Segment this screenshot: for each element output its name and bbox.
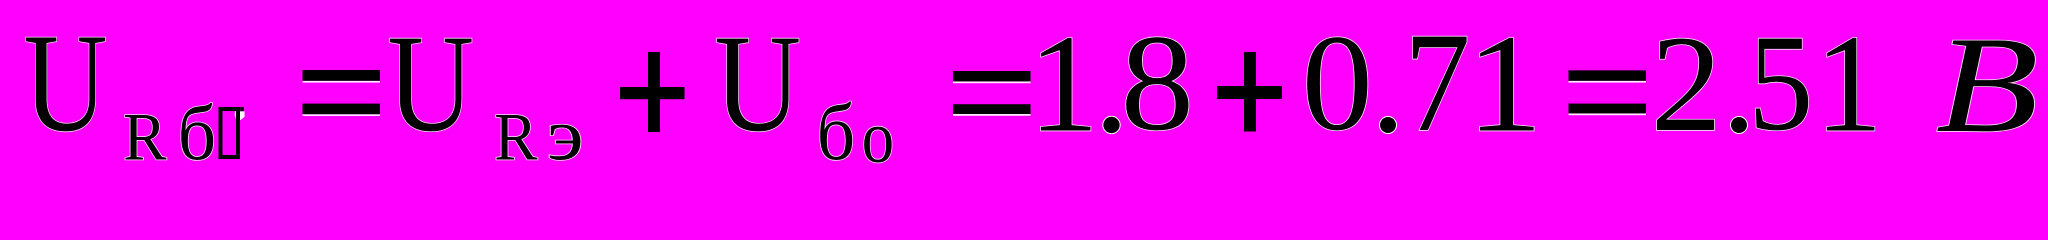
white wedge artifact	[235, 111, 245, 120]
plus 2	[1244, 52, 1256, 132]
svg-text:0: 0	[1302, 6, 1373, 159]
svg-text:U: U	[23, 4, 107, 161]
missing-glyph box	[221, 109, 239, 157]
svg-text:1: 1	[1815, 7, 1883, 162]
svg-text:R: R	[123, 99, 167, 175]
svg-text:U: U	[714, 7, 801, 161]
svg-text:R: R	[494, 99, 538, 175]
svg-text:э: э	[547, 95, 584, 176]
svg-text:о: о	[862, 96, 895, 178]
svg-text:В: В	[1936, 8, 2039, 161]
svg-text:7: 7	[1404, 3, 1470, 161]
plus 1	[648, 52, 660, 132]
equals 1	[303, 81, 381, 83]
svg-text:1: 1	[1466, 7, 1542, 162]
svg-text:б: б	[178, 90, 217, 176]
svg-text:2: 2	[1651, 7, 1722, 160]
svg-text:8: 8	[1121, 6, 1195, 159]
svg-text:5: 5	[1748, 6, 1813, 159]
svg-text:U: U	[387, 7, 474, 161]
equals 3	[1569, 81, 1647, 83]
svg-text:1: 1	[1028, 7, 1098, 162]
equals 2	[953, 81, 1031, 83]
svg-text:б: б	[817, 88, 856, 177]
